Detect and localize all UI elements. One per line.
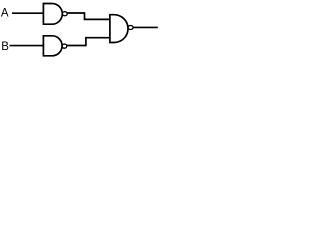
svg-text:B: B bbox=[1, 41, 9, 53]
nand gate U1 output bubble bbox=[62, 12, 67, 16]
nand gate U3 body bbox=[110, 15, 128, 43]
svg-text:A: A bbox=[1, 7, 9, 19]
wire B input bbox=[10, 45, 44, 47]
wire A input bbox=[12, 12, 43, 14]
nand gate U2 body bbox=[43, 36, 62, 56]
node B label bbox=[1, 41, 9, 53]
nand gate U2 output bubble bbox=[62, 44, 67, 48]
wire U1 output to U3 top input bbox=[67, 13, 110, 19]
nand gate U3 output bubble bbox=[128, 26, 133, 30]
wire U2 output to U3 bottom input bbox=[67, 38, 110, 46]
node A label bbox=[1, 7, 9, 19]
nand gate U1 body bbox=[43, 4, 62, 25]
wire U3 output bbox=[133, 26, 158, 28]
